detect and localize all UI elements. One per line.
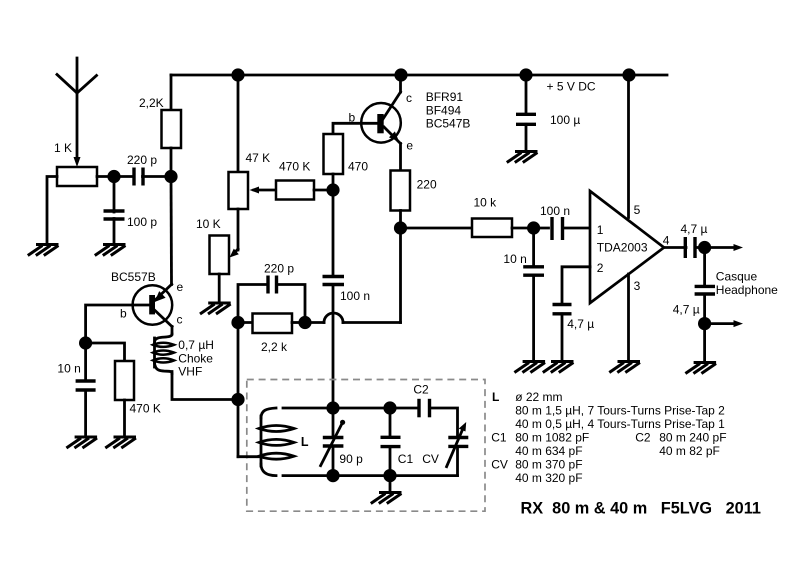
node xyxy=(519,68,532,81)
svg-text:1 K: 1 K xyxy=(54,141,72,155)
svg-text:80 m 370 pF: 80 m 370 pF xyxy=(515,458,582,472)
label CV values xyxy=(491,458,582,486)
resistor 2,2 k xyxy=(253,314,293,355)
wire xyxy=(86,343,125,361)
potentiometer 10 K xyxy=(196,217,229,274)
wire xyxy=(113,177,116,213)
wire xyxy=(703,294,706,324)
svg-text:BFR91: BFR91 xyxy=(426,90,464,104)
wire xyxy=(97,175,134,178)
capacitor 100 µ xyxy=(516,75,580,151)
capacitor 220 p parallel xyxy=(238,262,305,323)
wire tap xyxy=(238,455,261,458)
capacitor 10 n xyxy=(57,362,95,391)
node xyxy=(231,68,244,81)
svg-text:220: 220 xyxy=(417,178,437,192)
svg-text:5: 5 xyxy=(634,203,641,217)
wire xyxy=(389,447,392,476)
svg-text:Headphone: Headphone xyxy=(716,283,778,297)
wire pin 4 output xyxy=(664,246,686,249)
svg-text:2: 2 xyxy=(597,261,604,275)
wire pin 2 xyxy=(562,267,590,305)
svg-text:470 K: 470 K xyxy=(279,160,310,174)
ground xyxy=(200,303,231,314)
svg-text:CV: CV xyxy=(422,452,439,466)
svg-text:10 k: 10 k xyxy=(474,196,498,210)
svg-text:BC547B: BC547B xyxy=(426,117,471,131)
wire tank top xyxy=(283,407,419,410)
wire wiper arrow into 47K xyxy=(250,187,277,194)
resistor 220 xyxy=(391,171,437,211)
svg-text:C1: C1 xyxy=(491,431,507,445)
wire xyxy=(695,246,705,249)
dashed box tank xyxy=(247,380,485,512)
node xyxy=(326,401,339,414)
svg-text:c: c xyxy=(177,313,183,327)
svg-text:4,7 µ: 4,7 µ xyxy=(567,317,594,331)
svg-text:RX 80 m & 40 m F5LVG 2011: RX 80 m & 40 m F5LVG 2011 xyxy=(521,500,761,518)
trimmer capacitor 90 p xyxy=(321,408,363,466)
node xyxy=(79,336,92,349)
wire pin 5 xyxy=(627,75,630,218)
capacitor C1 xyxy=(381,408,414,466)
node xyxy=(231,316,244,329)
wire xyxy=(314,189,333,192)
wire xyxy=(47,177,57,244)
svg-text:BF494: BF494 xyxy=(426,103,462,117)
antenna xyxy=(57,58,97,167)
node xyxy=(326,469,339,482)
wire xyxy=(456,446,459,475)
node xyxy=(326,183,339,196)
wire top rail +5V xyxy=(171,74,667,77)
ground xyxy=(543,362,574,373)
svg-text:470 K: 470 K xyxy=(130,402,161,416)
label C1 values xyxy=(491,431,589,459)
capacitor 4,7 µ pin2 xyxy=(553,305,595,332)
svg-text:100 n: 100 n xyxy=(340,289,370,303)
resistor 10 k xyxy=(472,196,512,238)
wire xyxy=(401,227,473,230)
svg-text:C2: C2 xyxy=(635,431,651,445)
wire xyxy=(237,323,240,400)
wire arrow headphone - xyxy=(705,320,743,327)
svg-text:10 n: 10 n xyxy=(57,362,80,376)
wire xyxy=(292,321,305,324)
ground xyxy=(95,245,126,256)
wire xyxy=(703,324,706,362)
wire xyxy=(123,400,126,437)
wire xyxy=(332,446,335,476)
node xyxy=(298,316,311,329)
node xyxy=(164,170,177,183)
svg-text:e: e xyxy=(177,280,184,294)
label L values xyxy=(492,390,725,431)
svg-text:80 m 1,5 µH, 7 Tours-Turns Pri: 80 m 1,5 µH, 7 Tours-Turns Prise-Tap 2 xyxy=(515,404,725,418)
capacitor C2 xyxy=(413,383,429,418)
svg-text:0,7 µH: 0,7 µH xyxy=(178,338,214,352)
svg-text:TDA2003: TDA2003 xyxy=(597,241,648,255)
svg-text:e: e xyxy=(406,139,413,153)
label C2 values xyxy=(635,431,726,459)
wire xyxy=(563,227,591,230)
wire xyxy=(430,408,458,438)
node xyxy=(527,221,540,234)
svg-text:Choke: Choke xyxy=(178,351,213,365)
wire xyxy=(237,400,240,457)
svg-text:4,7 µ: 4,7 µ xyxy=(681,222,708,236)
potentiometer 47 K xyxy=(229,151,271,209)
svg-text:40 m 82 pF: 40 m 82 pF xyxy=(659,444,720,458)
potentiometer R 1K xyxy=(54,141,97,186)
capacitor 4,7 µ output xyxy=(681,222,708,258)
wire xyxy=(84,343,87,381)
svg-text:4,7 µ: 4,7 µ xyxy=(673,303,700,317)
node xyxy=(107,170,120,183)
ground xyxy=(66,437,97,448)
inductor L tank coil xyxy=(259,408,309,476)
svg-text:100 p: 100 p xyxy=(127,215,157,229)
svg-text:40 m 0,5 µH, 4 Tours-Turns Pri: 40 m 0,5 µH, 4 Tours-Turns Prise-Tap 1 xyxy=(515,417,725,431)
wire xyxy=(703,248,706,287)
svg-text:100 n: 100 n xyxy=(540,204,570,218)
svg-text:80 m 240 pF: 80 m 240 pF xyxy=(659,431,726,445)
resistor 470 xyxy=(324,134,369,174)
svg-text:3: 3 xyxy=(634,279,641,293)
svg-text:BC557B: BC557B xyxy=(111,270,156,284)
label Casque Headphone xyxy=(716,270,778,298)
svg-text:40 m 320 pF: 40 m 320 pF xyxy=(515,471,582,485)
ground xyxy=(507,152,538,163)
svg-text:C1: C1 xyxy=(398,452,414,466)
svg-text:80 m 1082 pF: 80 m 1082 pF xyxy=(515,431,589,445)
svg-text:2,2K: 2,2K xyxy=(139,96,164,110)
svg-text:470: 470 xyxy=(348,160,368,174)
inductor choke 0,7 µH VHF xyxy=(153,334,214,379)
svg-text:220 p: 220 p xyxy=(127,153,157,167)
op-amp U1 TDA2003 xyxy=(590,191,670,303)
transistor Q1 BFR91 xyxy=(349,90,471,153)
ground xyxy=(609,362,640,373)
capacitor 10 n right xyxy=(503,228,544,275)
svg-text:ø 22 mm: ø 22 mm xyxy=(515,390,562,404)
wire xyxy=(218,274,221,303)
ground xyxy=(105,437,136,448)
svg-text:CV: CV xyxy=(491,458,508,472)
wire tank bottom xyxy=(283,474,458,477)
node xyxy=(622,68,635,81)
wire arrow headphone + xyxy=(705,244,743,251)
node xyxy=(394,68,407,81)
wire xyxy=(389,476,392,492)
wire xyxy=(113,219,116,244)
wire xyxy=(170,148,173,177)
node xyxy=(394,221,407,234)
ground xyxy=(28,245,59,256)
capacitor 100 n middle xyxy=(323,190,371,303)
svg-text:L: L xyxy=(301,435,309,449)
wire xyxy=(399,211,402,229)
svg-text:10 n: 10 n xyxy=(503,252,526,266)
svg-text:40 m 634 pF: 40 m 634 pF xyxy=(515,444,582,458)
svg-text:10 K: 10 K xyxy=(196,217,221,231)
node B xyxy=(698,317,711,330)
ground xyxy=(685,363,716,374)
wire xyxy=(561,314,564,361)
resistor 470 K xyxy=(115,361,161,416)
svg-text:b: b xyxy=(349,111,356,125)
resistor 470 K xyxy=(276,160,314,200)
node xyxy=(383,469,396,482)
svg-text:VHF: VHF xyxy=(178,365,202,379)
svg-text:C2: C2 xyxy=(413,383,429,397)
svg-text:90 p: 90 p xyxy=(339,452,363,466)
wire xyxy=(399,144,402,171)
wire xyxy=(532,275,535,361)
wire xyxy=(143,175,172,178)
svg-text:2,2 k: 2,2 k xyxy=(261,340,288,354)
svg-text:Casque: Casque xyxy=(716,270,758,284)
variable capacitor CV xyxy=(422,422,468,467)
capacitor 4,7 µ lower xyxy=(673,286,715,316)
wire xyxy=(172,372,238,400)
wire xyxy=(170,75,173,110)
capacitor 100 n right xyxy=(540,204,570,240)
svg-text:b: b xyxy=(120,307,127,321)
wire hop over vertical line xyxy=(305,228,401,323)
ground xyxy=(371,493,402,504)
node xyxy=(231,393,244,406)
svg-text:1: 1 xyxy=(597,223,604,237)
wire pin 3 xyxy=(627,274,630,361)
svg-text:4: 4 xyxy=(663,234,670,248)
wire base Q2 xyxy=(86,305,150,343)
svg-text:c: c xyxy=(406,91,412,105)
svg-text:L: L xyxy=(492,390,499,404)
capacitor 220 p xyxy=(127,153,157,186)
svg-text:47 K: 47 K xyxy=(246,151,271,165)
wire xyxy=(84,390,87,437)
svg-text:+ 5 V DC: + 5 V DC xyxy=(547,80,596,94)
node xyxy=(383,401,396,414)
wire xyxy=(238,321,253,324)
wire xyxy=(512,227,549,230)
wire wiper to 10K xyxy=(230,209,239,258)
wire xyxy=(332,285,335,409)
capacitor 100 p xyxy=(104,211,158,229)
svg-text:100 µ: 100 µ xyxy=(550,113,580,127)
wire xyxy=(399,75,402,92)
node A xyxy=(698,241,711,254)
wire xyxy=(170,177,173,285)
svg-text:220 p: 220 p xyxy=(264,262,294,276)
wire xyxy=(237,75,240,172)
wire base Q1 xyxy=(333,123,378,134)
resistor 2,2K xyxy=(139,96,181,148)
ground xyxy=(514,362,545,373)
wire xyxy=(332,174,335,190)
transistor Q2 BC557B xyxy=(111,270,184,334)
